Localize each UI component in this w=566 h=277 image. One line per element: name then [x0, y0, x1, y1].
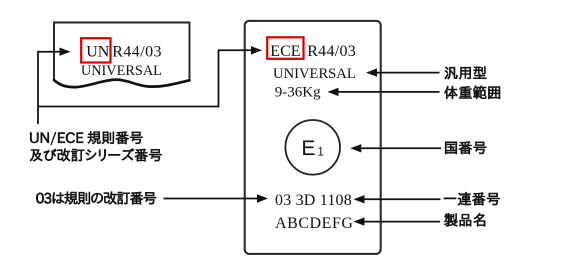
arrow into UN box	[38, 51, 61, 53]
wire horizontal connector	[37, 106, 218, 108]
svg-text:1: 1	[317, 147, 323, 159]
label 国番号	[445, 141, 486, 154]
svg-text:ECE: ECE	[270, 43, 300, 60]
arrow to product name	[365, 221, 441, 223]
arrow from 03 note to 03 3D 1108	[164, 198, 258, 200]
arrow to UNIVERSAL (right)	[377, 72, 440, 74]
wire vertical up to ECE arrow	[218, 50, 220, 107]
torn wavy bottom edge of left box	[54, 80, 190, 88]
label 汎用型	[445, 67, 486, 80]
arrow to serial number	[365, 198, 441, 200]
svg-text:E: E	[301, 137, 315, 160]
svg-text:9-36Kg: 9-36Kg	[275, 85, 321, 101]
red highlight box around UN	[81, 38, 110, 62]
sample label box (left, torn bottom)	[54, 23, 190, 81]
E-mark circle	[285, 120, 340, 175]
red highlight box around ECE	[267, 37, 303, 59]
svg-text:UNIVERSAL: UNIVERSAL	[81, 63, 162, 79]
svg-text:UN: UN	[86, 43, 110, 60]
label 03は規則の改訂番号	[36, 192, 156, 205]
arrow into ECE box	[218, 49, 252, 51]
label UN/ECE規則番号	[30, 131, 142, 145]
wire vertical from UN arrow down to label	[37, 51, 39, 124]
svg-text:R44/03: R44/03	[307, 43, 356, 60]
ECE approval label box (center, rounded)	[245, 21, 381, 254]
label 体重範囲	[445, 86, 501, 99]
svg-text:03 3D 1108: 03 3D 1108	[275, 192, 352, 209]
arrow to E circle	[361, 147, 441, 149]
svg-text:ABCDEFG: ABCDEFG	[275, 215, 354, 232]
svg-text:R44/03: R44/03	[112, 43, 162, 60]
arrow to 9-36Kg	[339, 91, 440, 93]
label 製品名	[444, 213, 485, 226]
svg-text:UNIVERSAL: UNIVERSAL	[273, 66, 356, 82]
label 一連番号	[444, 192, 500, 205]
label 及び改訂シリーズ番号	[30, 149, 162, 162]
